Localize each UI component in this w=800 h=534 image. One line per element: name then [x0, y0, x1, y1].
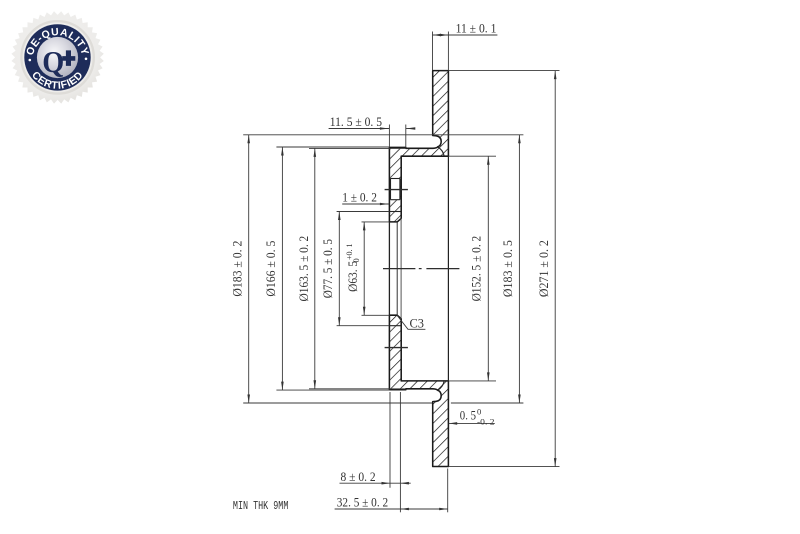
separator dots: [29, 59, 32, 62]
section top half: hat + flange + friction ring: [385, 71, 449, 222]
svg-text:11 ± 0. 1: 11 ± 0. 1: [456, 21, 497, 36]
dimension 11 ±0.1 (friction ring thickness, top): [433, 21, 498, 71]
dimension ø166 ±0.5 (hat face rim diameter): [263, 147, 389, 390]
ring text bottom: [34, 78, 82, 89]
svg-text:1 ± 0. 2: 1 ± 0. 2: [342, 190, 377, 205]
hub back face bore rim projection line: [400, 218, 402, 318]
svg-text:11. 5 ± 0. 5: 11. 5 ± 0. 5: [330, 114, 382, 129]
ring text top: [33, 35, 83, 73]
dimension ø271 ±0.2 (disc outer diameter): [448, 71, 559, 467]
navy ring: [24, 24, 90, 90]
dimension 8 ±0.2 (hub wall thickness): [340, 392, 411, 488]
silver center: [37, 37, 78, 78]
dimension 0.5 0/-0.2 (outboard face step): [449, 407, 495, 427]
bolt hole axis (top): [385, 189, 408, 191]
dimension ø152.5 ±0.2 (friction face inner diameter): [448, 156, 496, 381]
outboard face edge line between halves: [447, 156, 449, 381]
dimension 11.5 ±0.5 (hat depth, top): [329, 114, 416, 147]
svg-text:8 ± 0. 2: 8 ± 0. 2: [341, 469, 376, 484]
svg-text:Ø183 ± 0. 5: Ø183 ± 0. 5: [500, 240, 515, 297]
shoulder line o77.5 (top): [390, 211, 402, 213]
svg-text:Ø183 ± 0. 2: Ø183 ± 0. 2: [230, 241, 245, 297]
dimension ø163.5 ±0.2 (flange seat diameter): [296, 148, 406, 388]
bore front rim projection line: [388, 222, 390, 315]
svg-text:Ø163. 5 ± 0. 2: Ø163. 5 ± 0. 2: [296, 236, 311, 302]
serrated seal: [11, 11, 103, 103]
bolt hole axis (bottom): [385, 347, 408, 349]
dimension 1 ±0.2 (hub face step): [342, 190, 389, 206]
dimensions: [230, 21, 560, 514]
svg-text:0. 5: 0. 5: [460, 408, 476, 423]
svg-text:0: 0: [477, 407, 481, 417]
svg-text:Ø271 ± 0. 2: Ø271 ± 0. 2: [536, 240, 551, 297]
chamfer note C3 with leader: [397, 316, 425, 331]
dimension ø183 ±0.5 (hat outer diameter, right): [500, 135, 521, 403]
svg-text:MIN THK 9MM: MIN THK 9MM: [233, 499, 289, 513]
dimension 32.5 ±0.2 (overall height): [335, 392, 448, 512]
hatched body (top half): [389, 71, 448, 222]
svg-text:-0. 2: -0. 2: [477, 417, 495, 427]
svg-text:0: 0: [352, 258, 361, 262]
section bottom half (mirror): [383, 156, 459, 466]
dimension ø63.5 +0.1/0 (centre bore diameter): [345, 222, 390, 315]
bore chamfer rim projection line: [396, 222, 398, 315]
svg-text:Ø63. 5: Ø63. 5: [345, 261, 360, 292]
svg-text:32. 5 ± 0. 2: 32. 5 ± 0. 2: [337, 495, 388, 510]
svg-text:C3: C3: [410, 316, 425, 331]
svg-text:+0. 1: +0. 1: [345, 243, 354, 260]
svg-text:Ø166 ± 0. 5: Ø166 ± 0. 5: [263, 241, 278, 297]
shoulder line o77.5 (bottom): [390, 325, 402, 327]
svg-text:Ø77. 5 ± 0. 5: Ø77. 5 ± 0. 5: [320, 239, 335, 298]
badge: OE-QUALITY CERTIFIED Q+ seal: [11, 11, 103, 103]
hatched body (bottom half): [389, 315, 448, 466]
bolt hole (white, through hat): [391, 179, 400, 200]
dimension ø77.5 ±0.5 (hub counterbore diameter): [320, 212, 389, 326]
disc axis center line: [383, 268, 459, 270]
fillet edge line at hat/ring junction (top): [438, 147, 445, 156]
fillet edge line at hat/ring junction (bottom): [438, 381, 445, 390]
dimension ø183 ±0.2 (hat outer diameter, left): [230, 135, 524, 403]
seal inner embossed ring: [21, 21, 93, 93]
svg-text:Q: Q: [42, 44, 64, 79]
svg-text:Ø152. 5 ± 0. 2: Ø152. 5 ± 0. 2: [468, 236, 483, 302]
